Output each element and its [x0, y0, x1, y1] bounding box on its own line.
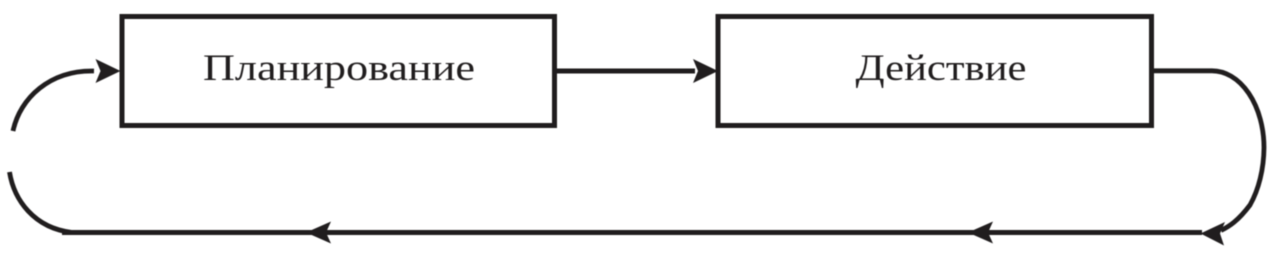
wire left bottom arc [10, 172, 73, 233]
box Действие [718, 17, 1152, 126]
arrowhead mid-left on return line [306, 222, 331, 244]
wire bottom return line [62, 230, 1202, 235]
svg-text:Действие: Действие [856, 48, 1027, 89]
svg-text:Планирование: Планирование [203, 48, 475, 89]
box Планирование [122, 17, 555, 126]
wire right arc from Действие down to return line [1151, 71, 1264, 231]
arrowhead mid-right on return line [968, 222, 993, 244]
arrowhead into Планирование [96, 59, 121, 83]
arrowhead end of right arc [1201, 222, 1226, 246]
arrowhead into Действие [693, 59, 718, 83]
wire left top arc into Планирование [13, 71, 94, 131]
wire middle arrow Планирование to Действие [557, 69, 695, 74]
